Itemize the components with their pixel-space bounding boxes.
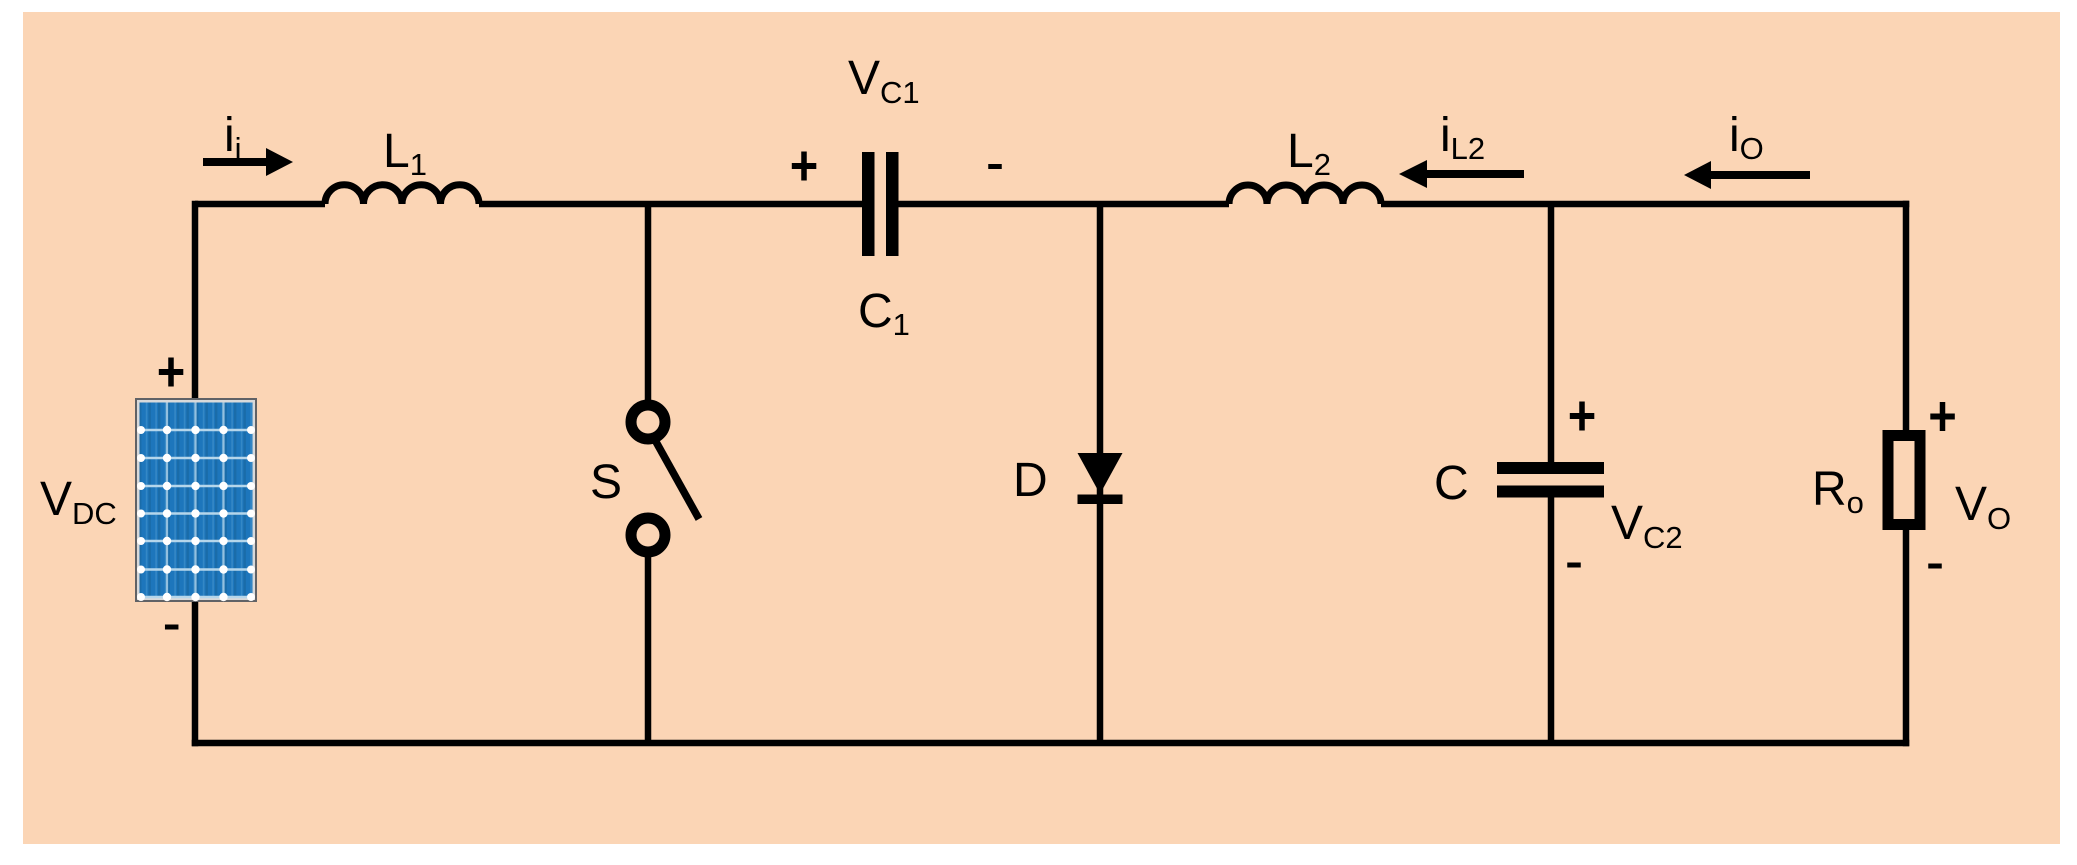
arrow iL2 bbox=[1399, 160, 1524, 188]
arrow ii bbox=[203, 148, 293, 176]
wire capacitor C branch upper bbox=[1548, 204, 1555, 465]
diode D bbox=[1078, 453, 1123, 504]
resistor Ro bbox=[1888, 436, 1920, 525]
svg-text:S: S bbox=[590, 456, 622, 509]
plus sign C bbox=[1570, 402, 1595, 431]
svg-text:C: C bbox=[1434, 457, 1469, 510]
minus sign VDC bbox=[165, 625, 179, 630]
inductor L2 bbox=[1229, 185, 1381, 204]
plus sign C1 bbox=[792, 152, 817, 181]
wire bottom horizontal bbox=[192, 740, 1910, 747]
wire capacitor C branch lower bbox=[1548, 494, 1555, 743]
minus sign C bbox=[1567, 563, 1581, 568]
inductor L1 bbox=[325, 185, 479, 204]
wire diode branch bbox=[1097, 204, 1104, 743]
plus sign Ro bbox=[1930, 402, 1955, 431]
switch S circles bbox=[631, 405, 665, 552]
plus sign VDC bbox=[159, 358, 184, 387]
PV panel VDC bbox=[136, 399, 256, 601]
arrow iO bbox=[1684, 161, 1810, 189]
wire left vertical bbox=[192, 201, 199, 747]
capacitor C plates bbox=[1497, 462, 1604, 498]
wire switch branch upper bbox=[645, 204, 652, 402]
wire top horizontal bbox=[195, 201, 1909, 208]
minus sign C1 bbox=[988, 164, 1002, 169]
capacitor C1 plates bbox=[862, 152, 899, 256]
wire right vertical bbox=[1903, 201, 1910, 747]
switch S lever bbox=[655, 440, 699, 519]
minus sign Ro bbox=[1928, 564, 1942, 569]
wire switch branch lower bbox=[645, 555, 652, 743]
svg-text:D: D bbox=[1013, 454, 1048, 507]
